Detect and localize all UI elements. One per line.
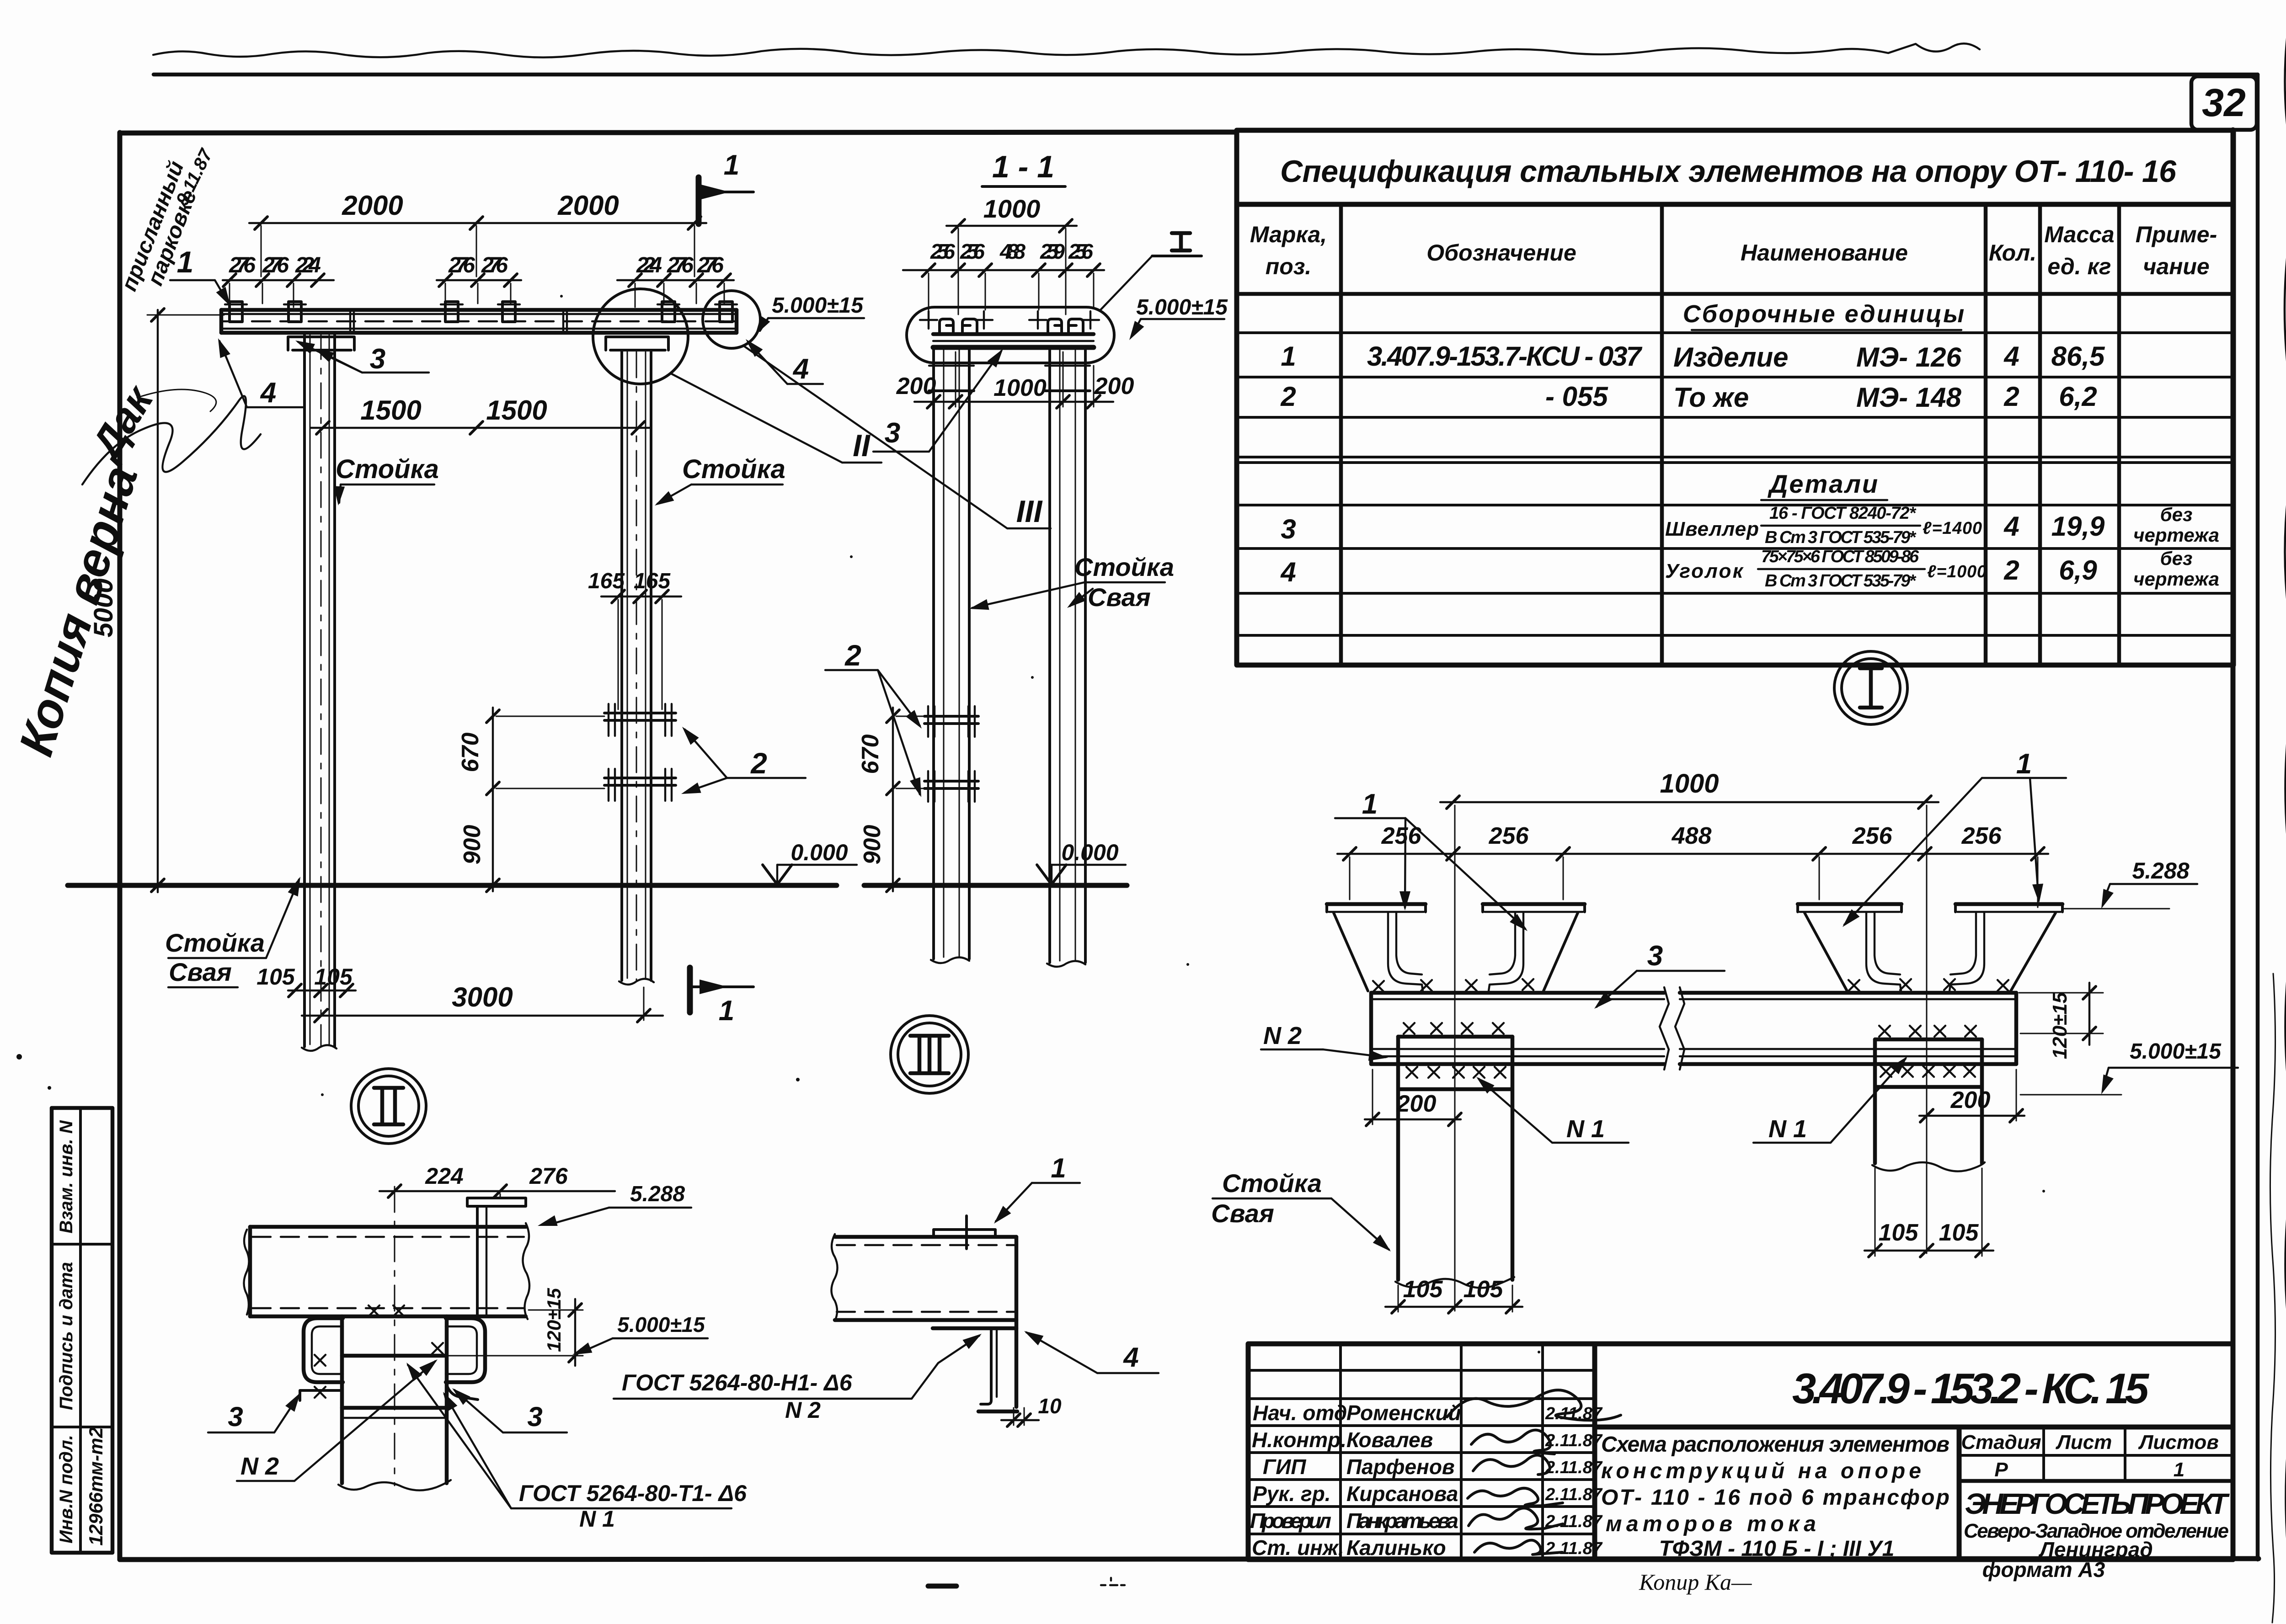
svg-text:2000: 2000 bbox=[342, 190, 403, 221]
svg-text:5.288: 5.288 bbox=[630, 1182, 685, 1206]
svg-text:Наименование: Наименование bbox=[1741, 240, 1908, 266]
svg-text:6,9: 6,9 bbox=[2059, 555, 2097, 586]
svg-text:Нач. отд: Нач. отд bbox=[1253, 1401, 1347, 1425]
svg-text:105: 105 bbox=[256, 964, 295, 990]
svg-text:276: 276 bbox=[697, 253, 724, 277]
svg-text:224: 224 bbox=[636, 253, 662, 277]
svg-text:Копия верна: Копия верна bbox=[9, 460, 148, 762]
svg-text:Марка,: Марка, bbox=[1250, 222, 1327, 247]
svg-text:670: 670 bbox=[457, 733, 484, 772]
svg-text:32: 32 bbox=[2202, 81, 2246, 125]
svg-text:1: 1 bbox=[724, 149, 739, 181]
svg-text:конструкций на опоре: конструкций на опоре bbox=[1601, 1459, 1921, 1483]
svg-text:200: 200 bbox=[1950, 1087, 1991, 1113]
svg-text:Инв.N подл.: Инв.N подл. bbox=[56, 1435, 76, 1544]
svg-text:0.000: 0.000 bbox=[1061, 840, 1118, 865]
svg-text:256: 256 bbox=[1068, 240, 1093, 263]
svg-text:259: 259 bbox=[1040, 240, 1065, 263]
svg-text:16 - ГОСТ 8240-72*: 16 - ГОСТ 8240-72* bbox=[1769, 504, 1917, 523]
svg-text:1: 1 bbox=[1362, 788, 1378, 820]
svg-text:Стойка: Стойка bbox=[165, 928, 265, 957]
svg-text:6,2: 6,2 bbox=[2059, 381, 2097, 412]
svg-text:N 2: N 2 bbox=[240, 1453, 279, 1480]
svg-text:2.11.87: 2.11.87 bbox=[1545, 1485, 1603, 1504]
svg-text:Ст. инж.: Ст. инж. bbox=[1252, 1536, 1344, 1560]
svg-text:276: 276 bbox=[481, 253, 508, 277]
svg-text:4: 4 bbox=[1123, 1342, 1138, 1373]
svg-text:Спецификация стальных элемен: Спецификация стальных элементов на опору… bbox=[1280, 154, 2177, 189]
svg-text:165: 165 bbox=[634, 569, 671, 593]
svg-text:2: 2 bbox=[750, 747, 767, 780]
svg-text:276: 276 bbox=[262, 253, 289, 277]
svg-text:ГОСТ 5264-80-Т1- Δ6: ГОСТ 5264-80-Т1- Δ6 bbox=[519, 1480, 747, 1506]
svg-text:Листов: Листов bbox=[2138, 1431, 2219, 1454]
svg-text:105: 105 bbox=[1463, 1276, 1504, 1303]
svg-text:4: 4 bbox=[260, 377, 276, 409]
svg-text:200: 200 bbox=[896, 373, 936, 399]
svg-text:Подпись и дата: Подпись и дата bbox=[56, 1262, 76, 1410]
svg-text:3: 3 bbox=[1647, 940, 1663, 972]
svg-text:То же: То же bbox=[1673, 382, 1749, 413]
svg-text:Швеллер: Швеллер bbox=[1665, 518, 1759, 540]
svg-text:маторов тока: маторов тока bbox=[1606, 1512, 1816, 1536]
svg-text:75×75×6 ГОСТ 8509-86: 75×75×6 ГОСТ 8509-86 bbox=[1761, 547, 1919, 566]
svg-text:Уголок: Уголок bbox=[1665, 560, 1744, 582]
svg-text:1000: 1000 bbox=[983, 194, 1041, 223]
svg-text:1500: 1500 bbox=[360, 395, 421, 426]
svg-text:Дак: Дак bbox=[81, 377, 163, 469]
svg-text:Приме-: Приме- bbox=[2136, 222, 2217, 247]
svg-text:Свая: Свая bbox=[1211, 1199, 1274, 1228]
svg-text:165: 165 bbox=[588, 569, 625, 593]
svg-text:488: 488 bbox=[1672, 823, 1712, 849]
svg-text:1000: 1000 bbox=[1660, 769, 1719, 799]
svg-text:200: 200 bbox=[1094, 373, 1134, 399]
svg-text:Схема расположения элементов: Схема расположения элементов bbox=[1601, 1432, 1950, 1457]
svg-text:19,9: 19,9 bbox=[2051, 511, 2105, 542]
svg-text:2: 2 bbox=[2003, 381, 2019, 412]
svg-text:Стойка: Стойка bbox=[336, 454, 439, 484]
svg-text:1: 1 bbox=[177, 245, 194, 279]
svg-text:ℓ=1400: ℓ=1400 bbox=[1923, 519, 1982, 538]
svg-text:276: 276 bbox=[229, 253, 256, 277]
svg-text:Стойка: Стойка bbox=[1222, 1169, 1322, 1198]
svg-text:276: 276 bbox=[667, 253, 694, 277]
svg-text:3: 3 bbox=[1281, 514, 1296, 544]
svg-text:488: 488 bbox=[999, 240, 1025, 263]
svg-text:II: II bbox=[853, 428, 871, 463]
svg-text:3000: 3000 bbox=[452, 982, 513, 1012]
svg-text:3.407.9 - 153.2 - КС. 15: 3.407.9 - 153.2 - КС. 15 bbox=[1792, 1364, 2150, 1412]
svg-text:5.000±15: 5.000±15 bbox=[617, 1313, 705, 1336]
svg-text:224: 224 bbox=[425, 1163, 463, 1189]
svg-text:1 - 1: 1 - 1 bbox=[992, 149, 1054, 184]
svg-text:Детали: Детали bbox=[1768, 469, 1879, 498]
svg-text:2.11.87: 2.11.87 bbox=[1545, 1458, 1603, 1477]
svg-text:3: 3 bbox=[370, 343, 385, 375]
svg-text:В Ст 3 ГОСТ 535-79*: В Ст 3 ГОСТ 535-79* bbox=[1765, 528, 1917, 547]
svg-text:- 055: - 055 bbox=[1545, 381, 1608, 412]
svg-text:224: 224 bbox=[295, 253, 321, 277]
svg-text:Проверил: Проверил bbox=[1250, 1509, 1331, 1533]
svg-text:5.000±15: 5.000±15 bbox=[772, 293, 864, 318]
svg-text:105: 105 bbox=[1939, 1219, 1979, 1246]
svg-text:N 1: N 1 bbox=[579, 1506, 615, 1532]
svg-text:ℓ=1000: ℓ=1000 bbox=[1927, 562, 1987, 581]
svg-text:2000: 2000 bbox=[557, 190, 619, 221]
svg-text:чертежа: чертежа bbox=[2133, 568, 2219, 590]
svg-text:120±15: 120±15 bbox=[543, 1288, 565, 1352]
svg-text:3: 3 bbox=[228, 1401, 243, 1432]
svg-text:105: 105 bbox=[1879, 1219, 1919, 1246]
svg-text:Роменский: Роменский bbox=[1346, 1401, 1461, 1425]
svg-text:Копир Ка—: Копир Ка— bbox=[1639, 1569, 1752, 1595]
svg-text:Лист: Лист bbox=[2056, 1431, 2112, 1454]
svg-text:5.000±15: 5.000±15 bbox=[1136, 295, 1228, 319]
svg-text:2: 2 bbox=[844, 639, 861, 672]
svg-text:256: 256 bbox=[1489, 823, 1529, 849]
svg-text:без: без bbox=[2160, 548, 2193, 569]
svg-text:10: 10 bbox=[1038, 1394, 1062, 1418]
svg-text:Рук. гр.: Рук. гр. bbox=[1253, 1482, 1331, 1506]
svg-text:Свая: Свая bbox=[169, 958, 232, 986]
svg-text:Изделие: Изделие bbox=[1673, 342, 1789, 373]
svg-text:Н.контр.: Н.контр. bbox=[1252, 1428, 1346, 1452]
svg-text:3.407.9-153.7-КСU - 037: 3.407.9-153.7-КСU - 037 bbox=[1367, 341, 1643, 372]
svg-text:1: 1 bbox=[1051, 1153, 1066, 1183]
svg-text:105: 105 bbox=[1403, 1276, 1443, 1303]
svg-text:В Ст 3 ГОСТ 535-79*: В Ст 3 ГОСТ 535-79* bbox=[1765, 571, 1917, 591]
svg-text:N 1: N 1 bbox=[1566, 1115, 1605, 1143]
svg-text:900: 900 bbox=[859, 825, 886, 865]
svg-text:12966тм-т2: 12966тм-т2 bbox=[85, 1427, 107, 1545]
svg-text:900: 900 bbox=[459, 825, 486, 865]
svg-text:ед. кг: ед. кг bbox=[2047, 254, 2111, 279]
svg-text:4: 4 bbox=[2003, 341, 2019, 372]
svg-text:5.000±15: 5.000±15 bbox=[2130, 1039, 2222, 1064]
svg-text:2.11.87: 2.11.87 bbox=[1545, 1512, 1603, 1531]
svg-text:1000: 1000 bbox=[993, 375, 1047, 401]
svg-text:Кирсанова: Кирсанова bbox=[1346, 1482, 1458, 1506]
svg-text:Стадия: Стадия bbox=[1961, 1431, 2041, 1454]
svg-text:ГОСТ 5264-80-Н1- Δ6: ГОСТ 5264-80-Н1- Δ6 bbox=[622, 1370, 853, 1395]
svg-text:276: 276 bbox=[448, 253, 475, 277]
svg-text:105: 105 bbox=[314, 964, 353, 990]
svg-text:1: 1 bbox=[2016, 748, 2032, 780]
svg-text:1: 1 bbox=[719, 995, 734, 1027]
svg-text:2: 2 bbox=[1280, 381, 1296, 412]
svg-text:N 1: N 1 bbox=[1768, 1115, 1807, 1143]
svg-text:МЭ- 148: МЭ- 148 bbox=[1856, 382, 1961, 413]
svg-text:N 2: N 2 bbox=[785, 1397, 821, 1423]
svg-text:Обозначение: Обозначение bbox=[1426, 240, 1576, 266]
svg-text:МЭ- 126: МЭ- 126 bbox=[1856, 342, 1961, 373]
svg-text:256: 256 bbox=[960, 240, 985, 263]
svg-text:Парфенов: Парфенов bbox=[1346, 1455, 1455, 1479]
svg-text:Свая: Свая bbox=[1088, 583, 1151, 612]
svg-text:N 2: N 2 bbox=[1263, 1022, 1302, 1049]
svg-text:4: 4 bbox=[1280, 557, 1296, 587]
svg-text:чание: чание bbox=[2143, 254, 2210, 279]
svg-text:3: 3 bbox=[885, 417, 900, 449]
svg-text:670: 670 bbox=[857, 735, 884, 774]
svg-text:5000: 5000 bbox=[89, 578, 118, 637]
svg-text:формат А3: формат А3 bbox=[1982, 1558, 2105, 1581]
svg-text:3: 3 bbox=[527, 1401, 542, 1432]
svg-text:поз.: поз. bbox=[1266, 254, 1312, 279]
svg-text:0.000: 0.000 bbox=[790, 840, 848, 865]
svg-text:ГИП: ГИП bbox=[1263, 1455, 1306, 1479]
svg-text:чертежа: чертежа bbox=[2133, 524, 2219, 546]
svg-text:256: 256 bbox=[1961, 823, 2002, 849]
svg-text:Кол.: Кол. bbox=[1989, 240, 2036, 266]
svg-text:без: без bbox=[2160, 504, 2193, 525]
svg-text:2: 2 bbox=[2003, 555, 2019, 586]
svg-text:1: 1 bbox=[2174, 1459, 2185, 1481]
svg-text:86,5: 86,5 bbox=[2051, 341, 2105, 372]
svg-text:1500: 1500 bbox=[486, 395, 547, 426]
svg-text:256: 256 bbox=[1852, 823, 1893, 849]
svg-text:ОТ- 110 - 16 под 6 трансфор: ОТ- 110 - 16 под 6 трансфор bbox=[1601, 1486, 1950, 1510]
svg-text:276: 276 bbox=[529, 1163, 568, 1189]
svg-text:ЭНЕРГОСЕТЬПРОЕКТ: ЭНЕРГОСЕТЬПРОЕКТ bbox=[1965, 1487, 2230, 1520]
svg-text:5.288: 5.288 bbox=[2132, 858, 2189, 884]
svg-text:ТФЗМ - 110 Б - I ; III У1: ТФЗМ - 110 Б - I ; III У1 bbox=[1659, 1537, 1895, 1561]
svg-text:III: III bbox=[1016, 494, 1043, 529]
svg-text:256: 256 bbox=[930, 240, 955, 263]
svg-text:Р: Р bbox=[1994, 1459, 2008, 1481]
svg-text:Стойка: Стойка bbox=[1074, 553, 1174, 581]
svg-text:120±15: 120±15 bbox=[2049, 992, 2071, 1059]
svg-text:Сборочные единицы: Сборочные единицы bbox=[1683, 300, 1966, 328]
svg-text:Ковалев: Ковалев bbox=[1346, 1428, 1433, 1452]
svg-text:1: 1 bbox=[1281, 341, 1296, 372]
svg-text:Стойка: Стойка bbox=[682, 454, 785, 484]
svg-text:2.11.87: 2.11.87 bbox=[1545, 1431, 1603, 1450]
svg-text:2.11.87: 2.11.87 bbox=[1545, 1539, 1603, 1558]
svg-text:4: 4 bbox=[2003, 511, 2019, 542]
svg-text:Панкратьева: Панкратьева bbox=[1346, 1509, 1458, 1533]
svg-text:Взам. инв. N: Взам. инв. N bbox=[56, 1120, 76, 1233]
svg-text:Масса: Масса bbox=[2044, 222, 2115, 247]
svg-text:Калинько: Калинько bbox=[1346, 1536, 1446, 1560]
svg-text:200: 200 bbox=[1396, 1091, 1437, 1117]
